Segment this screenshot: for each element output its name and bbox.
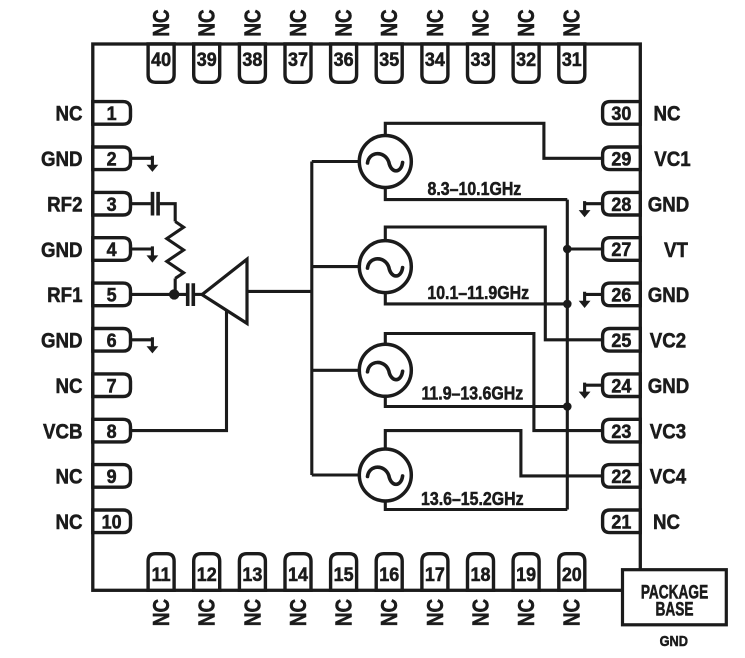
svg-text:38: 38: [242, 48, 262, 70]
oscillator VCO1: [359, 136, 411, 188]
pin 20: [559, 554, 585, 591]
svg-text:26: 26: [611, 284, 631, 306]
svg-text:GND: GND: [648, 284, 690, 307]
pin 28: [603, 192, 641, 215]
svg-text:NC: NC: [55, 103, 82, 126]
wire VT bus to pin 27 VT: [567, 247, 602, 250]
wire VCO2 tuning to VT bus: [385, 293, 567, 304]
pin 30: [603, 102, 641, 125]
pin 32: [513, 44, 539, 82]
wire VCO3 tuning to VT bus: [385, 396, 567, 406]
svg-text:BASE: BASE: [656, 598, 694, 620]
svg-text:NC: NC: [469, 599, 494, 626]
wire capacitor C1 to resistor R1: [160, 204, 175, 222]
pin 2: [93, 147, 131, 170]
svg-text:12: 12: [197, 563, 217, 585]
pin 24: [603, 374, 641, 397]
svg-text:NC: NC: [332, 9, 357, 36]
svg-text:NC: NC: [241, 9, 266, 36]
svg-text:29: 29: [611, 148, 631, 170]
svg-text:21: 21: [611, 511, 631, 533]
wire VCO1 output to pin 29 VC1: [385, 123, 602, 158]
pin 34: [422, 44, 448, 82]
svg-text:10: 10: [102, 511, 122, 533]
svg-text:34: 34: [425, 48, 446, 70]
pin 10: [93, 510, 131, 533]
pin 13: [239, 554, 265, 591]
svg-text:NC: NC: [377, 599, 402, 626]
pin 25: [603, 329, 641, 352]
svg-text:32: 32: [516, 48, 536, 70]
svg-text:VC3: VC3: [650, 420, 686, 443]
svg-text:NC: NC: [55, 375, 82, 398]
svg-text:15: 15: [334, 563, 354, 585]
svg-text:VCB: VCB: [43, 420, 82, 443]
svg-text:28: 28: [611, 193, 631, 215]
svg-text:NC: NC: [514, 9, 539, 36]
net VT bus: [566, 200, 569, 510]
svg-text:13: 13: [242, 563, 262, 585]
svg-text:NC: NC: [423, 599, 448, 626]
ground symbol at pin 4: [131, 246, 159, 262]
pin 37: [285, 44, 311, 82]
svg-text:33: 33: [471, 48, 491, 70]
svg-text:4: 4: [107, 239, 118, 261]
pin 11: [148, 554, 174, 591]
svg-text:16: 16: [379, 563, 399, 585]
pin 23: [603, 419, 641, 442]
pin 17: [422, 554, 448, 591]
svg-text:VC2: VC2: [650, 329, 686, 352]
svg-text:NC: NC: [423, 9, 448, 36]
svg-text:NC: NC: [241, 599, 266, 626]
wire pin 3 RF2 to capacitor C1: [131, 202, 151, 205]
svg-text:3: 3: [107, 193, 117, 215]
svg-text:VC1: VC1: [654, 148, 690, 171]
wire VCO2 output to pin 25 VC2: [385, 227, 602, 340]
pin 31: [559, 44, 585, 82]
pin 39: [194, 44, 220, 82]
pin 8: [93, 419, 131, 442]
svg-text:18: 18: [471, 563, 491, 585]
svg-text:24: 24: [611, 375, 632, 397]
svg-text:GND: GND: [41, 239, 83, 262]
pin 19: [513, 554, 539, 591]
pin 22: [603, 465, 641, 488]
wire bus to VCO2: [312, 265, 360, 268]
svg-text:2: 2: [107, 148, 117, 170]
svg-text:25: 25: [611, 329, 631, 351]
svg-text:GND: GND: [648, 193, 690, 216]
pin 1: [93, 102, 131, 125]
svg-text:23: 23: [611, 420, 631, 442]
pin 26: [603, 283, 641, 306]
svg-text:20: 20: [562, 563, 582, 585]
wire VCO4 tuning to VT bus: [385, 501, 567, 510]
svg-text:VC4: VC4: [650, 466, 687, 489]
svg-text:GND: GND: [660, 632, 688, 649]
svg-text:NC: NC: [514, 599, 539, 626]
pin 18: [468, 554, 494, 591]
junction VCO2/VT: [563, 300, 572, 309]
svg-text:27: 27: [611, 239, 631, 261]
svg-text:NC: NC: [55, 466, 82, 489]
svg-text:39: 39: [197, 48, 217, 70]
resistor R1: [167, 222, 184, 279]
svg-text:NC: NC: [55, 511, 82, 534]
pin 9: [93, 465, 131, 488]
pin 40: [148, 44, 174, 82]
svg-text:VT: VT: [664, 239, 689, 262]
svg-text:37: 37: [288, 48, 308, 70]
svg-text:36: 36: [334, 48, 354, 70]
pin 7: [93, 374, 131, 397]
svg-text:NC: NC: [332, 599, 357, 626]
svg-text:NC: NC: [560, 9, 585, 36]
svg-text:8.3–10.1GHz: 8.3–10.1GHz: [428, 178, 522, 199]
pin 12: [194, 554, 220, 591]
junction VT tap: [563, 245, 572, 254]
svg-text:NC: NC: [149, 599, 174, 626]
pin 16: [376, 554, 402, 591]
svg-text:NC: NC: [286, 9, 311, 36]
pin 29: [603, 147, 641, 170]
svg-text:NC: NC: [195, 9, 220, 36]
svg-text:17: 17: [425, 563, 445, 585]
pin 33: [468, 44, 494, 82]
pin 14: [285, 554, 311, 591]
svg-text:GND: GND: [41, 148, 83, 171]
svg-text:14: 14: [288, 563, 309, 585]
oscillator VCO2: [359, 241, 411, 293]
ground symbol at pin 2: [131, 156, 159, 172]
wire pin 5 RF1 to capacitor C2: [131, 293, 187, 296]
wire bus to VCO4: [312, 473, 360, 476]
svg-text:RF1: RF1: [47, 284, 82, 307]
svg-text:7: 7: [107, 375, 117, 397]
pin 21: [603, 510, 641, 533]
pin 4: [93, 238, 131, 261]
svg-text:GND: GND: [41, 329, 83, 352]
ground symbol at pin 26: [579, 292, 603, 308]
pin 15: [331, 554, 357, 591]
ground symbol at pin 6: [131, 337, 159, 353]
svg-text:10.1–11.9GHz: 10.1–11.9GHz: [427, 282, 529, 303]
svg-text:NC: NC: [377, 9, 402, 36]
node RF1 junction: [169, 289, 179, 299]
svg-text:NC: NC: [469, 9, 494, 36]
svg-text:22: 22: [611, 465, 631, 487]
wire amp output to bus: [247, 290, 312, 293]
svg-text:40: 40: [151, 48, 171, 70]
svg-text:19: 19: [516, 563, 536, 585]
wire capacitor C2 to amplifier input: [195, 293, 203, 296]
ground symbol at pin 28: [579, 201, 603, 217]
svg-text:8: 8: [107, 420, 117, 442]
ground symbol at pin 24: [579, 383, 603, 399]
pin 38: [239, 44, 265, 82]
pin 6: [93, 329, 131, 352]
pin 5: [93, 283, 131, 306]
svg-text:35: 35: [379, 48, 399, 70]
svg-text:6: 6: [107, 329, 117, 351]
svg-text:9: 9: [107, 465, 117, 487]
capacitor C1: [153, 192, 159, 216]
oscillator VCO4: [359, 449, 411, 501]
svg-text:NC: NC: [195, 599, 220, 626]
svg-text:RF2: RF2: [47, 193, 82, 216]
amplifier A1: [202, 259, 247, 323]
svg-text:NC: NC: [286, 599, 311, 626]
svg-text:1: 1: [107, 102, 117, 124]
svg-text:30: 30: [611, 102, 631, 124]
pin 27: [603, 238, 641, 261]
package outline: [93, 44, 641, 590]
svg-text:NC: NC: [560, 599, 585, 626]
svg-text:NC: NC: [653, 103, 680, 126]
svg-text:11.9–13.6GHz: 11.9–13.6GHz: [421, 382, 523, 403]
wire oscillator input bus: [310, 162, 313, 476]
oscillator VCO3: [359, 344, 411, 396]
wire resistor R1 to node RF1: [174, 278, 177, 294]
wire VCO1 tuning to VT bus: [385, 188, 567, 200]
wire VCO3 output to pin 23 VC3: [385, 334, 602, 431]
wire bus to VCO3: [312, 369, 360, 372]
pin 36: [331, 44, 357, 82]
wire pin 8 VCB to amplifier bias: [131, 311, 227, 431]
wire bus to VCO1: [312, 160, 360, 163]
junction VCO3/VT: [563, 402, 572, 411]
pin 3: [93, 192, 131, 215]
svg-text:11: 11: [152, 563, 171, 585]
svg-text:5: 5: [107, 284, 117, 306]
svg-text:NC: NC: [149, 9, 174, 36]
capacitor C2: [188, 283, 194, 306]
pin 35: [376, 44, 402, 82]
package base pad: [623, 570, 727, 625]
svg-text:NC: NC: [653, 511, 680, 534]
svg-text:31: 31: [562, 48, 582, 70]
wire VCO4 output to pin 22 VC4: [385, 431, 602, 476]
svg-text:13.6–15.2GHz: 13.6–15.2GHz: [421, 488, 524, 509]
svg-text:GND: GND: [648, 375, 690, 398]
